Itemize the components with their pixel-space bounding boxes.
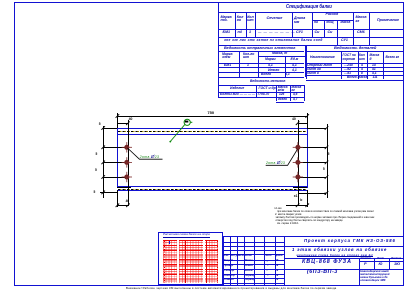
- right bolt note leader: [266, 150, 298, 166]
- bolt R3: [293, 172, 303, 182]
- stadia values: [364, 263, 367, 267]
- notes block (right middle): [274, 208, 281, 211]
- bottom right dim ext: [307, 190, 308, 207]
- bottom right dim text x: [294, 195, 298, 198]
- bolt R2: [293, 157, 303, 167]
- stamp cell 2 text: [307, 270, 338, 276]
- metizy data: [220, 93, 255, 96]
- signature rows texts: [224, 260, 233, 263]
- bottom right small dim line: [286, 205, 308, 206]
- right chain row 4 bottom: [298, 193, 327, 194]
- left bolt note leader: [128, 148, 163, 159]
- top right small dim line: [298, 123, 308, 124]
- right subtable col lines: [341, 51, 342, 79]
- left chain row 1: [103, 147, 128, 148]
- beam bottom flange inner edge: [117, 186, 307, 187]
- bottom left dim text: [126, 200, 130, 203]
- title block left edge: [223, 236, 224, 285]
- right bolt note text: [266, 161, 285, 166]
- bottom left small dim line: [117, 205, 128, 206]
- beam right end edge: [307, 128, 308, 188]
- title block row A bottom: [284, 246, 403, 247]
- right chain row 2: [298, 162, 327, 163]
- red box border: [158, 232, 223, 285]
- right chain row 1: [298, 147, 327, 148]
- spec merged row 2: [224, 39, 323, 42]
- red box title text: [163, 233, 210, 237]
- massa group split: [258, 56, 305, 57]
- left bolt note text: [140, 155, 159, 160]
- spec data row 1: [223, 31, 231, 35]
- right subtable total row: [347, 76, 367, 79]
- left end plate line: [128, 120, 129, 205]
- right chain row 3: [298, 177, 327, 178]
- bolt L1: [122, 142, 132, 152]
- beam top flange outer edge: [117, 128, 307, 129]
- page border frame: [14, 2, 404, 3]
- top dim extension right: [307, 113, 308, 128]
- dim ticks bottom dims: [116, 204, 309, 208]
- right chain labels: [328, 153, 330, 156]
- right end plate line: [298, 120, 299, 205]
- right subtable header texts: [310, 56, 335, 59]
- right corner black line: [293, 187, 307, 188]
- title block row B text 1: [292, 248, 387, 253]
- spec table title row bottom: [218, 12, 403, 13]
- top left small dim line: [117, 123, 128, 124]
- title block row B text 2: [297, 254, 374, 258]
- left chain row 0: [103, 128, 117, 129]
- spec table bottom / subtable top: [218, 45, 403, 46]
- bolt L2: [122, 157, 132, 167]
- left subtable header text: [224, 46, 295, 50]
- red sketch strong vertical: [206, 241, 207, 283]
- left chain labels: [99, 123, 101, 126]
- dim ticks left chain: [101, 126, 105, 194]
- title block main divider: [284, 236, 285, 285]
- title block top edge: [223, 236, 403, 237]
- right chain row 0: [307, 128, 326, 129]
- spec table data row line: [218, 37, 403, 38]
- red sketch blue tick: [169, 241, 170, 245]
- spec table header bottom: [218, 29, 403, 30]
- bolt R1: [293, 142, 303, 152]
- bottom right dim text b: [300, 199, 302, 202]
- top left small dim text: [129, 118, 133, 121]
- position balloon: [169, 119, 192, 142]
- beam top hidden dashed line: [118, 131, 307, 132]
- left chain row 4 bottom: [100, 192, 118, 193]
- metizy total row (right only): [278, 98, 287, 101]
- metizy col lines: [256, 85, 257, 97]
- signature squiggles: [267, 261, 268, 263]
- dim ticks top dimension: [116, 114, 309, 125]
- right dimension chain line: [327, 124, 328, 198]
- bolt L3: [122, 172, 132, 182]
- beam top flange inner edge: [117, 134, 307, 135]
- spec table left edge: [218, 2, 219, 97]
- left chain row 2: [103, 162, 128, 163]
- beam bottom hidden dashed line: [118, 189, 307, 190]
- top dim text 750: [207, 111, 214, 115]
- title block row B bottom: [284, 258, 403, 259]
- dim ticks right chain: [325, 126, 329, 195]
- right subtable left edge: [306, 45, 307, 79]
- title block row A text: [304, 239, 396, 244]
- left subtable header bottom: [218, 51, 304, 52]
- stamp cell 1 text: [302, 260, 352, 266]
- top right small dim text: [292, 118, 296, 121]
- stamp row C split: [284, 269, 403, 270]
- left chain row 3: [103, 177, 128, 178]
- right subtable header text: [334, 46, 376, 50]
- stadia header line: [359, 261, 404, 262]
- red sketch dotted flanks: [164, 241, 165, 283]
- metizy header text: [250, 79, 285, 83]
- red sketch grid pattern: [163, 240, 218, 283]
- left subtable header band bottom: [218, 63, 304, 64]
- left dimension chain line: [103, 126, 104, 198]
- spec header texts: [221, 16, 232, 23]
- metizy header texts: [230, 87, 244, 90]
- org cell text: [360, 270, 389, 282]
- right subtable data rows: [307, 64, 332, 67]
- title block left grid rows: [223, 242, 284, 243]
- izm header row texts: [223, 255, 228, 258]
- left subtable col lines: [239, 51, 240, 77]
- top main dimension line: [117, 116, 307, 117]
- bottom left dim ext: [117, 190, 118, 207]
- left corner black line: [117, 187, 131, 188]
- left subtable bottom: [218, 77, 304, 78]
- stadia cols: [374, 258, 375, 269]
- left subtable header texts: [222, 53, 232, 60]
- stadia header texts: [361, 258, 371, 261]
- stamp cell divider: [359, 258, 360, 285]
- left subtable data rows: [224, 64, 231, 67]
- beam bottom flange outer edge: [117, 190, 307, 191]
- red sketch white gaps: [177, 240, 179, 283]
- spec table title text: [286, 5, 332, 10]
- spec col lines: [235, 12, 236, 37]
- bottom disclaimer text: [126, 287, 336, 290]
- top dim extension left: [117, 113, 118, 128]
- beam left end edge: [117, 128, 118, 188]
- title block left grid verticals: [230, 236, 231, 285]
